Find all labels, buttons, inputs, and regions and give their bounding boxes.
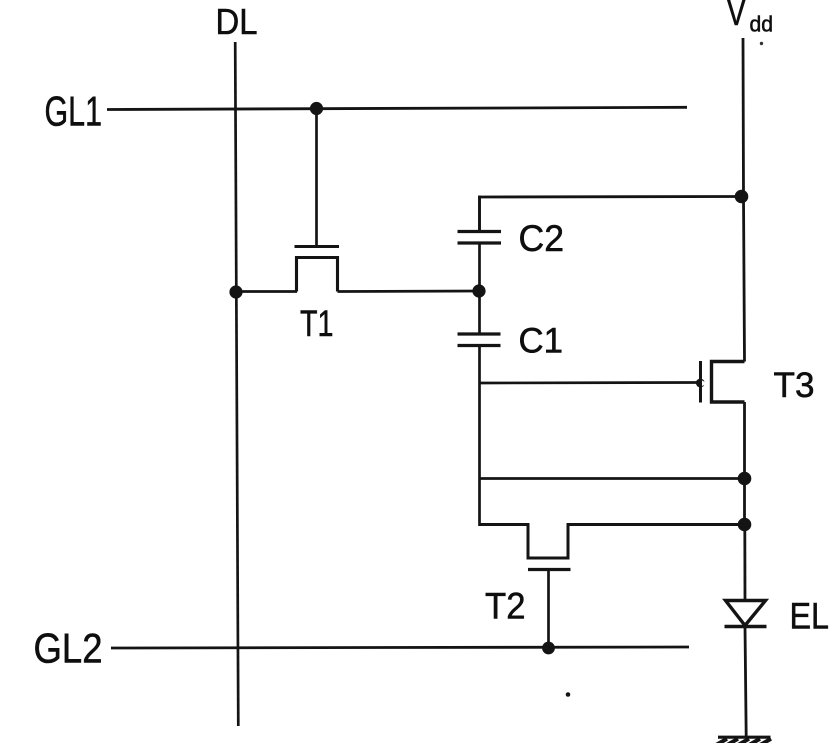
svg-text:DL: DL bbox=[216, 1, 258, 42]
wire Vdd branch between node B and node C bbox=[743, 479, 746, 525]
node junction top wire / Vdd bbox=[735, 190, 749, 204]
wire DL to T1 source bbox=[236, 290, 298, 293]
svg-text:EL: EL bbox=[790, 595, 830, 637]
wire capacitor chain middle segment bbox=[478, 243, 481, 334]
node junction T2 drain / EL anode bbox=[738, 518, 752, 532]
stray ink speck bbox=[760, 42, 763, 45]
ground bar bbox=[718, 736, 771, 739]
transistor T3 gate bar bbox=[699, 361, 702, 403]
transistor T1 channel bbox=[297, 258, 338, 292]
wire Vdd vertical upper bbox=[743, 38, 745, 362]
svg-text:GL1: GL1 bbox=[45, 87, 103, 134]
T3 gate contact dot bbox=[696, 379, 707, 388]
wire EL anode bbox=[743, 525, 746, 602]
wire capacitor chain upper segment bbox=[478, 196, 481, 232]
wire DL data line bbox=[235, 42, 238, 726]
wire GL1 gate line 1 bbox=[107, 107, 687, 109]
node junction GL1 / T1 gate bbox=[310, 102, 323, 115]
node junction wire B / Vdd branch bbox=[738, 472, 752, 486]
wire T1 gate bbox=[315, 109, 318, 247]
wire T3 drain down to node B bbox=[743, 402, 746, 480]
svg-text:T3: T3 bbox=[774, 365, 815, 405]
wire T3 gate bbox=[480, 381, 698, 384]
capacitor C1 bbox=[458, 334, 501, 346]
stray ink dot bbox=[566, 692, 571, 697]
wire capacitor chain lower segment bbox=[478, 346, 481, 527]
transistor T2 gate bar bbox=[528, 568, 571, 571]
svg-text:C1: C1 bbox=[519, 321, 564, 361]
wire node B horizontal bbox=[480, 477, 745, 480]
wire GL2 gate line 2 bbox=[111, 647, 689, 648]
transistor T2 channel with source/drain wires bbox=[480, 525, 745, 559]
diode EL triangle bbox=[726, 601, 766, 626]
svg-text:C2: C2 bbox=[519, 218, 565, 259]
transistor T3 channel bbox=[712, 362, 745, 403]
wire T1 drain to storage node bbox=[338, 290, 481, 293]
transistor T1 gate bar bbox=[295, 245, 340, 248]
wire EL cathode to ground bbox=[745, 627, 746, 738]
wire C2 top plate to Vdd bbox=[480, 197, 742, 232]
node storage junction between C1 and C2 bbox=[472, 284, 485, 297]
node junction T2 gate / GL2 bbox=[542, 642, 555, 655]
svg-text:dd: dd bbox=[750, 12, 774, 37]
label Vdd bbox=[727, 0, 774, 37]
svg-text:V: V bbox=[727, 0, 747, 34]
svg-text:GL2: GL2 bbox=[34, 625, 103, 672]
capacitor C2 bbox=[458, 232, 502, 244]
ground hatching bbox=[716, 739, 771, 743]
svg-text:T1: T1 bbox=[300, 302, 334, 344]
node junction DL / T1 source bbox=[229, 285, 242, 298]
wire T2 gate bbox=[547, 570, 550, 649]
diode EL cathode bar bbox=[725, 625, 767, 628]
svg-text:T2: T2 bbox=[485, 585, 526, 627]
